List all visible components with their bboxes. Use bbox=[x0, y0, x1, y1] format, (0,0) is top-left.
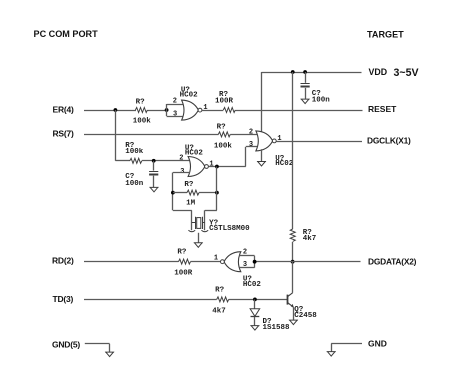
label D1 D? bbox=[263, 318, 273, 326]
label C1 C? bbox=[312, 90, 322, 98]
wire resonator center to ground bbox=[198, 233, 200, 243]
wire U1D input bracket bbox=[240, 256, 255, 268]
capacitor C2 lower lead bbox=[153, 176, 155, 188]
svg-text:TARGET: TARGET bbox=[367, 29, 404, 39]
node 1M left junction bbox=[171, 191, 175, 195]
resistor R8 1M zigzag bbox=[187, 190, 199, 195]
op-amp U1D NOR gate mirrored bbox=[221, 252, 241, 272]
node U1D input tie dot bbox=[253, 260, 257, 264]
resistor R6 zigzag bbox=[217, 297, 229, 302]
svg-text:3: 3 bbox=[180, 168, 184, 176]
ground GND target symbol bbox=[327, 352, 336, 357]
wire R1 to U1A input bbox=[147, 110, 167, 112]
svg-text:R?: R? bbox=[177, 248, 187, 256]
svg-text:RESET: RESET bbox=[368, 104, 397, 114]
wire GND target bbox=[331, 344, 362, 352]
label U1B U? bbox=[275, 155, 285, 163]
label R2 100R bbox=[215, 98, 234, 106]
wire VDD rail bbox=[262, 72, 362, 74]
capacitor C1 lead bbox=[305, 72, 307, 83]
svg-text:100R: 100R bbox=[174, 269, 193, 277]
svg-text:100k: 100k bbox=[125, 148, 144, 156]
pin 2 label U1A bbox=[173, 98, 177, 106]
svg-text:100n: 100n bbox=[312, 97, 331, 105]
label R3 100k bbox=[125, 148, 144, 156]
pin 2 label U1B bbox=[249, 129, 253, 137]
resonator built-in capacitors bbox=[188, 230, 208, 232]
label R6 R? bbox=[215, 287, 225, 295]
node TD/diode junction bbox=[253, 298, 257, 302]
resistor R5 zigzag bbox=[179, 259, 191, 264]
svg-text:1: 1 bbox=[214, 254, 218, 262]
resistor R1 zigzag bbox=[135, 108, 147, 113]
pin 2 label U1D bbox=[243, 248, 247, 256]
ground GND(5) symbol bbox=[105, 352, 114, 357]
label R6 4k7 bbox=[212, 308, 226, 316]
label U1A HC02 bbox=[180, 92, 199, 100]
node 1M right junction bbox=[215, 191, 219, 195]
svg-text:C2458: C2458 bbox=[294, 312, 317, 320]
resistor R4 zigzag bbox=[218, 132, 230, 137]
svg-text:TD(3): TD(3) bbox=[53, 294, 74, 304]
svg-text:2: 2 bbox=[179, 154, 183, 162]
title PC COM PORT bbox=[34, 29, 99, 39]
resistor R3 zigzag bbox=[130, 158, 142, 163]
wire ER junction down bbox=[115, 110, 117, 161]
label C1 100n bbox=[312, 97, 331, 105]
label U1C U? bbox=[185, 144, 195, 152]
label C2 C? bbox=[125, 173, 135, 181]
svg-text:DGDATA(X2): DGDATA(X2) bbox=[368, 256, 417, 266]
svg-text:3: 3 bbox=[249, 141, 253, 149]
wire pin3 down to 1M bbox=[172, 173, 174, 211]
wire U1B bottom to ground bbox=[261, 149, 263, 161]
svg-text:100k: 100k bbox=[214, 142, 233, 150]
wire DGDATA to collector bbox=[292, 262, 294, 293]
label R1 100k bbox=[133, 118, 152, 126]
transistor Q1 emitter bbox=[288, 303, 294, 308]
port label GND(5) bbox=[52, 340, 80, 350]
wire Q1 emitter down bbox=[293, 307, 295, 320]
svg-text:R?: R? bbox=[136, 98, 146, 106]
label Y1 Y? bbox=[209, 220, 219, 228]
wire GND(5) bbox=[85, 344, 110, 352]
svg-text:RD(2): RD(2) bbox=[52, 256, 74, 266]
svg-text:VDD: VDD bbox=[369, 67, 388, 77]
title TARGET bbox=[367, 29, 404, 39]
svg-text:100R: 100R bbox=[215, 98, 234, 106]
wire R6 to Q1 base bbox=[229, 299, 287, 301]
svg-text:R?: R? bbox=[217, 123, 227, 131]
diode D1 lead bbox=[254, 299, 256, 308]
label R7 4k7 bbox=[303, 235, 317, 243]
pin 3 label U1A bbox=[173, 111, 177, 119]
wire U1C pin3 left bbox=[173, 172, 190, 174]
svg-text:HC02: HC02 bbox=[243, 281, 262, 289]
svg-text:100n: 100n bbox=[125, 180, 144, 188]
wire R2 to RESET bbox=[235, 110, 362, 112]
ground below Q1 bbox=[289, 320, 298, 325]
ground below C2 bbox=[150, 187, 159, 192]
label U1C HC02 bbox=[185, 150, 204, 158]
op-amp U1A NOR gate bbox=[182, 100, 202, 120]
svg-text:100k: 100k bbox=[133, 118, 152, 126]
wire to R3 bbox=[115, 160, 130, 162]
svg-text:RS(7): RS(7) bbox=[53, 129, 74, 139]
ground below U1B bbox=[257, 162, 266, 167]
port label ER(4) bbox=[53, 104, 74, 114]
wire U1C out bbox=[209, 166, 246, 168]
wire VDD to U1B top bbox=[261, 72, 263, 134]
label R8 R? bbox=[184, 181, 194, 189]
diode D1 triangle bbox=[250, 309, 260, 317]
svg-text:GND(5): GND(5) bbox=[52, 340, 80, 350]
svg-text:DGCLK(X1): DGCLK(X1) bbox=[367, 135, 411, 145]
diode D1 lower lead bbox=[254, 317, 256, 325]
wire R5 to U1D bubble bbox=[191, 261, 221, 263]
wire right osc vertical bbox=[216, 167, 218, 211]
label Y1 CSTLS8M00 bbox=[209, 225, 250, 233]
svg-text:4k7: 4k7 bbox=[303, 235, 317, 243]
svg-text:CSTLS8M00: CSTLS8M00 bbox=[209, 225, 250, 233]
svg-text:R?: R? bbox=[184, 181, 194, 189]
op-amp U1B NOR gate bbox=[256, 131, 276, 151]
label R1 R? bbox=[136, 98, 146, 106]
node R3/C2 junction bbox=[152, 159, 156, 163]
wire RS(7) to R4 bbox=[84, 134, 219, 136]
capacitor C1 plates bbox=[301, 84, 310, 87]
svg-text:3: 3 bbox=[173, 111, 177, 119]
svg-text:1: 1 bbox=[209, 161, 213, 169]
transistor Q1 base bar bbox=[287, 295, 289, 305]
label R4 R? bbox=[217, 123, 227, 131]
label U1D U? bbox=[243, 275, 253, 283]
port label GND (target) bbox=[368, 339, 387, 349]
pin 1 label U1A bbox=[203, 104, 207, 112]
transistor Q1 collector bbox=[288, 293, 293, 297]
svg-text:1M: 1M bbox=[186, 199, 196, 207]
svg-text:3~5V: 3~5V bbox=[394, 67, 419, 79]
label U1D HC02 bbox=[243, 281, 262, 289]
resistor R7 4k7 zigzag bbox=[290, 229, 295, 242]
node ER junction bbox=[114, 108, 118, 112]
node VDD junction 2 bbox=[303, 70, 307, 74]
label U1B HC02 bbox=[275, 160, 294, 168]
label R5 100R bbox=[174, 269, 193, 277]
pin 3 label U1C bbox=[180, 168, 184, 176]
capacitor C2 plates bbox=[149, 172, 158, 175]
label D1 1S1588 bbox=[263, 324, 291, 332]
wire TD(3) to R6 bbox=[84, 299, 217, 301]
wire R7 to DGDATA bbox=[292, 242, 294, 262]
pin 1 label U1C bbox=[209, 161, 213, 169]
svg-text:PC COM PORT: PC COM PORT bbox=[34, 29, 99, 39]
pin 2 label U1C bbox=[179, 154, 183, 162]
wire resonator left lead bbox=[173, 210, 192, 230]
port label TD(3) bbox=[53, 294, 74, 304]
ground below D1 bbox=[250, 326, 259, 331]
label Q1 C2458 bbox=[294, 312, 317, 320]
port label RS(7) bbox=[53, 129, 74, 139]
wire R3 to U1C pin2 bbox=[142, 160, 190, 162]
annotation 3~5V bbox=[394, 67, 419, 79]
label C2 100n bbox=[125, 180, 144, 188]
diode D1 cathode bar bbox=[251, 316, 260, 318]
pin 3 label U1D bbox=[243, 261, 247, 269]
op-amp U1C NOR gate bbox=[188, 157, 208, 177]
wire resonator right lead bbox=[205, 210, 217, 230]
wire 1M left lead bbox=[173, 192, 187, 194]
svg-text:2: 2 bbox=[173, 98, 177, 106]
svg-text:4k7: 4k7 bbox=[212, 308, 226, 316]
wire ER(4) to R1 bbox=[84, 110, 136, 112]
wire U1A out to R2 bbox=[202, 110, 223, 112]
label R5 R? bbox=[177, 248, 187, 256]
port label RESET bbox=[368, 104, 397, 114]
node U1A input tie dot bbox=[165, 108, 169, 112]
wire out up to U1B pin3 bbox=[246, 147, 258, 167]
wire RD(2) to R5 bbox=[84, 261, 179, 263]
label Q1 Q? bbox=[294, 306, 304, 314]
node DGDATA junction bbox=[291, 260, 295, 264]
svg-text:GND: GND bbox=[368, 339, 387, 349]
label R8 1M bbox=[186, 199, 196, 207]
wire U1A input bracket bbox=[167, 104, 184, 117]
label R7 R? bbox=[303, 229, 313, 237]
port label RD(2) bbox=[52, 256, 74, 266]
svg-text:HC02: HC02 bbox=[180, 92, 199, 100]
svg-text:1S1588: 1S1588 bbox=[263, 324, 291, 332]
capacitor C1 lower lead bbox=[305, 88, 307, 99]
pin 1 label U1D bbox=[214, 254, 218, 262]
wire VDD down to R7 bbox=[292, 72, 294, 229]
svg-text:HC02: HC02 bbox=[275, 160, 294, 168]
wire DGDATA line bbox=[255, 261, 361, 263]
ground below C1 bbox=[301, 99, 310, 104]
ground below resonator bbox=[194, 243, 203, 248]
wire R4 to U1B pin2 bbox=[230, 134, 257, 136]
crystal Y1 body bbox=[192, 217, 205, 229]
label R3 R? bbox=[125, 142, 135, 150]
svg-text:ER(4): ER(4) bbox=[53, 104, 74, 114]
label U1A U? bbox=[181, 86, 191, 94]
capacitor C2 lead bbox=[153, 161, 155, 171]
port label VDD bbox=[369, 67, 388, 77]
label R4 100k bbox=[214, 142, 233, 150]
port label DGDATA(X2) bbox=[368, 256, 417, 266]
resistor R2 zigzag bbox=[223, 108, 235, 113]
port label DGCLK(X1) bbox=[367, 135, 411, 145]
pin 1 label U1B bbox=[277, 135, 281, 143]
svg-text:2: 2 bbox=[249, 129, 253, 137]
label R2 R? bbox=[219, 91, 229, 99]
wire 1M right lead bbox=[199, 192, 217, 194]
wire U1B out to DGCLK bbox=[276, 141, 362, 143]
node U1C out junction bbox=[215, 165, 219, 169]
svg-text:R?: R? bbox=[215, 287, 225, 295]
node VDD junction 1 bbox=[291, 70, 295, 74]
pin 3 label U1B bbox=[249, 141, 253, 149]
